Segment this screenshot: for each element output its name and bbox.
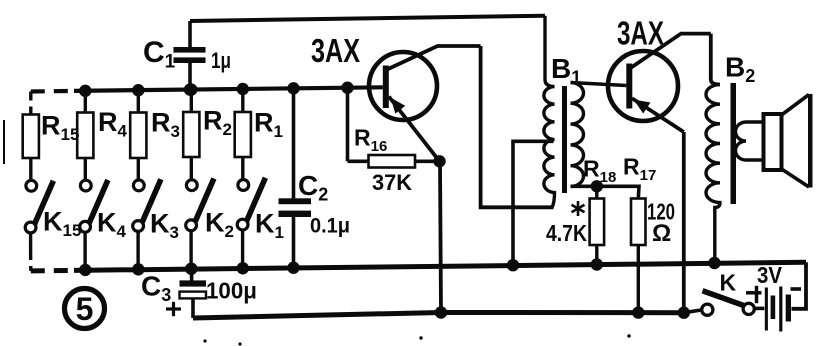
wire: B1 secondary top to T2 base (571, 83, 627, 86)
transistor T2 (circle) (608, 51, 678, 121)
wire: T2 emitter to bottom bus (682, 132, 686, 313)
battery GB1 plate 3 (long +) (779, 287, 782, 332)
key K4 upper contact (80, 180, 91, 191)
speaker cone mouth (808, 94, 813, 188)
transistor T2 collector lead (631, 34, 711, 68)
switch K lever (703, 291, 747, 307)
node: junction of B1 secondary / R18 / R17 (591, 180, 603, 192)
node: junction of K3 with lower bus (132, 263, 144, 275)
key K3 upper contact (133, 180, 144, 191)
wire: K15 to lower bus (dashed corner) (29, 252, 33, 271)
node: junction of R16 / T1 base with top bus (341, 82, 353, 94)
stray speck 3 (419, 336, 422, 339)
key K2 upper contact (186, 180, 197, 191)
transistor T1 emitter lead (389, 97, 440, 162)
svg-text:5: 5 (76, 291, 94, 327)
wire: K1 to lower bus (241, 230, 244, 269)
figure number 5 (circle) (65, 289, 105, 329)
key K3 lower contact (133, 221, 144, 232)
wire: C3 to bottom bus (191, 298, 195, 318)
stray scan mark at left edge (3, 120, 5, 164)
wire: top bus to R4 (84, 91, 87, 113)
resistor R1 (235, 112, 251, 157)
switch K left contact (702, 304, 713, 315)
wire: R3 to key K3 contact (137, 158, 140, 180)
node: junction of R1 with top bus (237, 83, 249, 95)
capacitor C3 electrolytic (solid plate) (180, 280, 207, 286)
node: junction of B1 tap with lower bus (507, 259, 519, 271)
battery GB1 plate 1 (long +) (765, 288, 768, 331)
resistor R17 (631, 199, 646, 246)
node: junction of R16 with T1 emitter (433, 155, 445, 167)
resistor R3 (130, 113, 146, 159)
wire: K4 to lower bus (83, 232, 86, 270)
key K1 upper contact (238, 180, 249, 191)
battery GB1 plate 4 (short -) (786, 295, 791, 322)
transformer B1 secondary winding (571, 83, 584, 187)
wire: K2 to lower bus (189, 230, 192, 268)
speaker cone bottom edge (782, 169, 810, 187)
node: junction of C3 / K2 with lower bus (185, 263, 197, 275)
label battery - sign (791, 287, 802, 291)
wire: top feedback rail from C1 to B1 primary (190, 16, 545, 21)
node: junction of R18 with lower bus (591, 258, 603, 270)
wire: top bus to R1 (241, 89, 244, 112)
wire: R4 to key K4 contact (84, 158, 87, 181)
transistor T2 base bar (626, 64, 632, 109)
resistor R16 (369, 155, 416, 168)
key K15 lever (35, 181, 54, 224)
wire: C1 bottom lead to top bus (188, 63, 192, 90)
wire: R2 to key K2 contact (190, 157, 193, 180)
key K1 lower contact (237, 219, 248, 230)
svg-text:4.7K: 4.7K (546, 220, 587, 246)
capacitor C1 (plates) (174, 47, 206, 53)
wire: R1 to key K1 contact (241, 157, 244, 180)
transistor T1 collector lead (387, 46, 481, 70)
node: junction of T1 emitter with bottom bus (435, 306, 447, 318)
wire: lower supply bus (74, 262, 806, 270)
transistor T2 emitter lead (632, 98, 684, 132)
capacitor C2 (plates) (279, 198, 312, 204)
wire: top bus to R2 (190, 90, 193, 112)
key K3 lever (142, 179, 161, 222)
wire: top bus to C2 (292, 88, 296, 198)
key K2 lower contact (186, 220, 197, 231)
battery GB1 plate 2 (short -) (771, 296, 776, 320)
transistor T2 emitter arrow (pnp) (634, 100, 651, 114)
node: junction of R17 with bottom bus (632, 306, 644, 318)
transistor T1 emitter arrow (pnp) (391, 98, 406, 114)
wire: C2 to lower bus (292, 217, 296, 268)
svg-text:3V: 3V (757, 262, 783, 288)
svg-text:1μ: 1μ (211, 48, 231, 73)
switch K right contact (743, 303, 754, 314)
wire: B1 secondary bottom to R17 (571, 186, 640, 198)
key K1 lever (247, 178, 266, 221)
wire: T1 collector down-leg to B1 primary bottom (481, 46, 554, 207)
svg-text:3AX: 3AX (311, 32, 360, 69)
transformer B2 primary winding (706, 85, 720, 264)
wire: K3 to lower bus (136, 231, 139, 269)
wire: node to R18 (595, 186, 598, 198)
wire: B1 primary center tap (513, 141, 554, 265)
wire: C1 top lead to feedback rail (188, 21, 192, 48)
wire: switch K to battery + (754, 307, 764, 311)
wire: bottom bus to switch K (684, 310, 702, 313)
svg-text:37K: 37K (372, 170, 412, 195)
node: junction of K4 with lower bus (79, 264, 91, 276)
transistor T1 (circle) (369, 52, 437, 120)
resistor R18 (590, 199, 605, 246)
label C3 polarity + (166, 307, 181, 310)
wire: K15 to lower bus (solid part) (29, 233, 32, 253)
capacitor C3 electrolytic (hollow plate) (180, 292, 207, 299)
node: junction of C2 with top bus (287, 82, 299, 94)
wire: R17 to bottom bus (637, 245, 640, 313)
wire: R18 to lower bus (595, 245, 598, 265)
stray speck 4 (627, 334, 630, 337)
transformer B1 primary winding (544, 16, 555, 208)
node: junction of C1 / R2 with top bus (184, 83, 196, 95)
wire: R16 right lead (415, 160, 440, 164)
resistor R4 (77, 113, 93, 159)
transformer B2 secondary winding (736, 122, 764, 160)
node: junction of K1 with lower bus (237, 262, 249, 274)
key K4 lower contact (80, 221, 91, 232)
node: junction of B2 primary with lower bus (708, 257, 720, 269)
transformer B2 core (731, 83, 737, 204)
svg-text:3AX: 3AX (617, 15, 664, 52)
wire: T1 emitter to bottom bus (440, 161, 441, 312)
node: junction of C2 with lower bus (287, 262, 299, 274)
resistor R2 (183, 112, 199, 157)
key K4 lever (89, 180, 108, 223)
svg-text:0.1μ: 0.1μ (310, 215, 350, 238)
key K2 lever (195, 179, 214, 222)
wire: top bus (74, 87, 383, 91)
wire: battery - to lower bus (792, 262, 807, 309)
key K15 lower contact (25, 222, 36, 233)
speaker cone top edge (782, 95, 810, 116)
speaker (driver body) (764, 114, 782, 170)
wire: dashed lead from top bus to R15 (29, 92, 32, 115)
wire: top bus (dashed left continuation) (31, 89, 74, 94)
svg-text:Ω: Ω (652, 220, 671, 247)
wire: lower supply bus (dashed left continuation) (31, 268, 74, 274)
wire: top bus to R3 (137, 90, 140, 112)
resistor R15 (23, 115, 39, 159)
wire: R15 to key K15 contact (29, 158, 32, 181)
wire: T2 collector down-leg to B2 primary (711, 34, 720, 85)
svg-text:100μ: 100μ (206, 278, 257, 304)
stray speck 2 (238, 342, 241, 345)
node: junction of R3 with top bus (132, 84, 144, 96)
stray speck 1 (203, 339, 206, 342)
label battery + sign (746, 291, 762, 295)
svg-text:K: K (720, 270, 737, 296)
transistor T1 base bar (383, 66, 389, 109)
node: junction of R2 with top bus (185, 83, 197, 95)
wire: lower bus to C3 (190, 269, 194, 281)
node: junction of R4 with top bus (79, 85, 91, 97)
transformer B1 core (562, 86, 567, 193)
wire: bottom ground bus (193, 313, 684, 319)
key K15 upper contact (26, 180, 37, 191)
node: junction of K2 with lower bus (185, 263, 197, 275)
wire: top bus down to R16 (346, 88, 350, 162)
label R18 select-value asterisk (577, 201, 580, 216)
wire: R16 left lead (348, 160, 369, 164)
node: junction of T2 emitter with bottom bus (678, 307, 690, 319)
